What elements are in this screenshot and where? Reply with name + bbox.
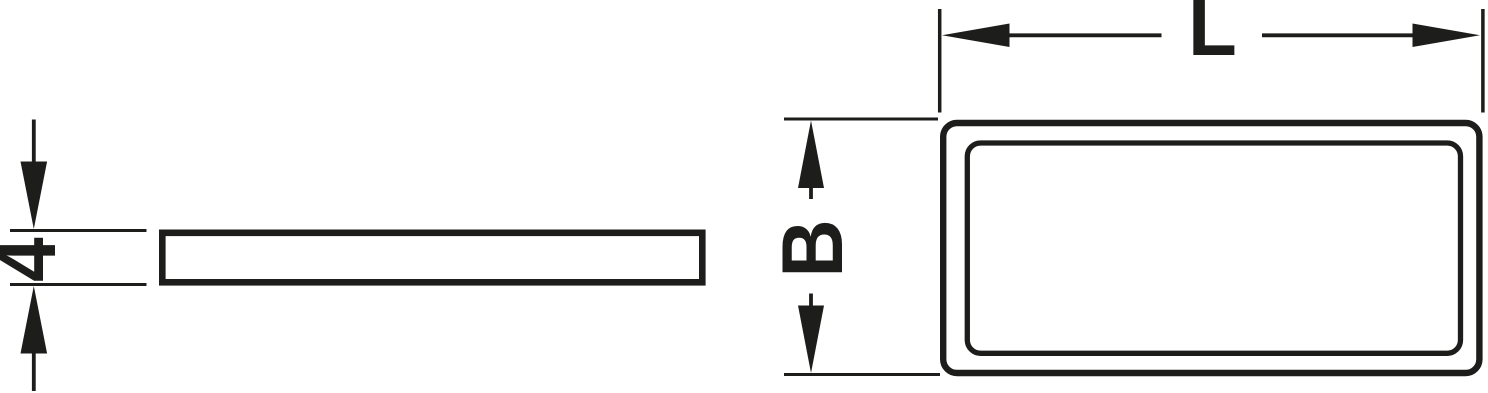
svg-text:L: L	[1188, 0, 1237, 74]
dimension 4 upper arrow (pointing down)	[21, 120, 48, 230]
extension line top of dimension B	[784, 117, 938, 120]
extension line left of dimension L	[938, 9, 942, 113]
extension line bottom of dimension 4	[10, 283, 147, 286]
extension line bottom of dimension B	[784, 373, 940, 376]
top-view inner rounded outline	[967, 143, 1460, 353]
dimension L left arrow (pointing left)	[942, 24, 1162, 48]
extension line right of dimension L	[1481, 9, 1485, 113]
dimension B lower arrow (pointing down)	[798, 294, 824, 374]
dimension 4 lower arrow (pointing up)	[21, 286, 48, 391]
dimension B upper arrow (pointing up)	[798, 121, 824, 200]
side-view plate outline	[162, 233, 702, 282]
extension line top of dimension 4	[10, 229, 147, 232]
svg-text:4: 4	[0, 237, 74, 282]
top-view outer rounded outline	[943, 123, 1479, 373]
dimension L right arrow (pointing right)	[1262, 24, 1480, 48]
svg-text:B: B	[764, 219, 861, 277]
